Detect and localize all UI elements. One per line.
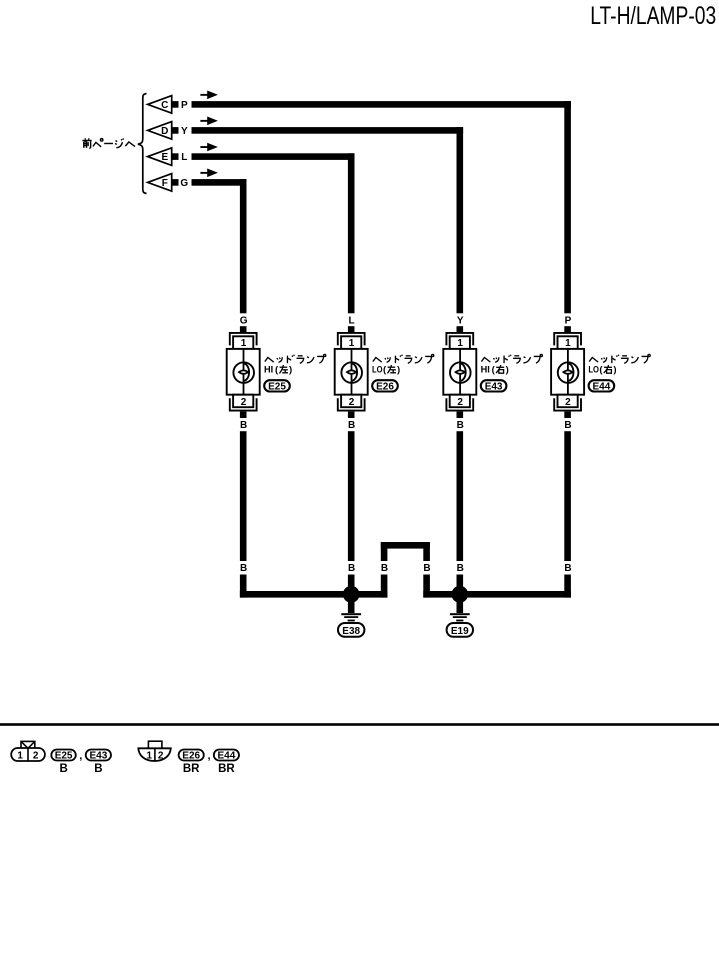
legend oval E44 [214, 750, 239, 762]
svg-text:B: B [457, 420, 464, 431]
bulb symbol in E43 [450, 362, 471, 383]
pin 2 of E43 [450, 395, 470, 408]
svg-text:B: B [564, 563, 571, 574]
svg-text:1: 1 [565, 338, 571, 349]
connector housing bottom of E25 [230, 398, 257, 410]
wire P horizontal run [192, 101, 571, 108]
svg-text:E44: E44 [593, 381, 611, 392]
wire stub from E44 pin 2 [564, 412, 571, 418]
svg-text:): ) [289, 365, 292, 376]
wire color label B above ground bus (col E43) [457, 563, 464, 574]
wire color label B on bridge left [381, 563, 388, 574]
headlamp body E26 [335, 349, 368, 395]
ground id oval E38 [338, 623, 364, 637]
pin 2 of E26 [341, 395, 361, 408]
svg-text:2: 2 [565, 397, 571, 408]
legend wire color BR for E44 [218, 763, 235, 775]
pin 2 of E44 [558, 395, 578, 408]
svg-text:E26: E26 [182, 751, 200, 762]
label ヘッドランプ LO(右) for E44 [588, 354, 650, 375]
legend oval E25 [51, 750, 76, 762]
connector triangle C (from previous page) [148, 96, 172, 114]
wire stub from E26 pin 2 [348, 412, 355, 418]
svg-text:1: 1 [457, 338, 463, 349]
connector housing top of E25 [230, 333, 257, 346]
wire B from E25 down [240, 431, 247, 561]
bulb symbol in E26 [341, 362, 362, 383]
svg-text:B: B [348, 563, 355, 574]
wire B from E26 down [348, 431, 355, 561]
svg-text:1: 1 [349, 338, 355, 349]
wire P vertical drop [564, 101, 571, 313]
connector housing bottom of E26 [338, 398, 365, 410]
wire B vertical to bus (col E25) [240, 575, 247, 598]
bridge left vertical lower [381, 575, 388, 598]
wire B from E43 down [457, 431, 464, 561]
ground symbol E38 [341, 600, 361, 621]
wire color label B below E43 [457, 420, 464, 431]
wire label P at E44 pin 1 [565, 316, 572, 327]
label ヘッドランプ HI(左) for E25 [264, 354, 326, 375]
connector triangle F (from previous page) [148, 174, 172, 192]
connector id oval E43 [481, 380, 507, 392]
legend connector face (male, E25/E43) [11, 741, 45, 761]
wire label L at E26 pin 1 [349, 316, 355, 327]
ground bus right segment [423, 591, 571, 598]
title text LT-H/LAMP-03 [590, 2, 716, 30]
pin 2 of E25 [233, 395, 253, 408]
separator rule [0, 723, 719, 726]
arrow on wire L [200, 143, 218, 152]
wire stub at D [172, 127, 179, 134]
legend oval E26 [179, 750, 204, 762]
svg-text:,: , [207, 750, 210, 762]
svg-text:B: B [240, 420, 247, 431]
pin 1 of E26 [341, 336, 361, 349]
legend comma 2 [207, 750, 210, 762]
svg-text:E44: E44 [218, 751, 236, 762]
svg-text:2: 2 [349, 397, 355, 408]
wire B vertical to bus (col E44) [564, 575, 571, 598]
connector housing top of E43 [446, 333, 473, 346]
svg-text:HI: HI [264, 365, 273, 376]
svg-text:P: P [181, 100, 188, 111]
connector id oval E44 [589, 380, 615, 392]
wire label G at E25 pin 1 [240, 316, 248, 327]
legend wire color B for E25 [59, 763, 67, 775]
svg-text:D: D [161, 126, 168, 137]
svg-text:E38: E38 [342, 626, 360, 637]
ground id oval E19 [447, 623, 473, 637]
label 前ページへ (to previous page) [82, 138, 135, 148]
pin 1 of E43 [450, 336, 470, 349]
headlamp body E25 [227, 349, 260, 395]
wire color label B above ground bus (col E26) [348, 563, 355, 574]
wire stub into E25 pin 1 [240, 326, 247, 333]
wire stub from E43 pin 2 [457, 412, 464, 418]
svg-text:B: B [381, 563, 388, 574]
wire G vertical drop [240, 179, 247, 313]
svg-text:C: C [161, 100, 168, 111]
connector id oval E25 [264, 380, 290, 392]
svg-text:P: P [565, 316, 572, 327]
bridge jog top [381, 542, 430, 549]
svg-text:LO: LO [588, 365, 599, 376]
svg-text:B: B [348, 420, 355, 431]
svg-text:L: L [349, 316, 355, 327]
wire G horizontal run [192, 179, 247, 186]
bulb symbol in E44 [558, 362, 579, 383]
wire B vertical to bus (col E43) [457, 575, 464, 598]
arrow on wire P [200, 91, 218, 100]
connector triangle D (from previous page) [148, 122, 172, 140]
connector housing top of E44 [554, 333, 581, 346]
svg-text:Y: Y [457, 316, 464, 327]
legend wire color B for E43 [94, 763, 102, 775]
connector housing bottom of E43 [446, 398, 473, 410]
svg-text:E25: E25 [55, 751, 73, 762]
wire Y vertical drop [457, 127, 464, 313]
svg-text:2: 2 [457, 397, 463, 408]
svg-text:): ) [613, 365, 616, 376]
wire color label B below E25 [240, 420, 247, 431]
wire stub into E44 pin 1 [564, 326, 571, 333]
legend connector face (female, E26/E44) [138, 741, 171, 761]
svg-text:F: F [162, 178, 168, 189]
wire stub into E43 pin 1 [457, 326, 464, 333]
wire color label B above ground bus (col E44) [564, 563, 571, 574]
svg-text:B: B [457, 563, 464, 574]
svg-text:B: B [240, 563, 247, 574]
connector id oval E26 [372, 380, 398, 392]
ground symbol E19 [450, 600, 470, 621]
wire L vertical drop [348, 153, 355, 313]
wire Y horizontal run [192, 127, 464, 134]
svg-text:1: 1 [17, 750, 23, 761]
svg-text:L: L [181, 152, 187, 163]
svg-text:B: B [94, 763, 102, 775]
svg-text:LO: LO [372, 365, 383, 376]
pin 1 of E44 [558, 336, 578, 349]
svg-text:,: , [79, 750, 82, 762]
wire stub at E [172, 153, 179, 160]
svg-text:E19: E19 [451, 626, 469, 637]
wire color label G [180, 178, 188, 189]
wire B from E44 down [564, 431, 571, 561]
svg-text:HI: HI [481, 365, 490, 376]
connector housing bottom of E44 [554, 398, 581, 410]
arrow on wire G [200, 169, 218, 178]
svg-text:E43: E43 [90, 751, 108, 762]
wire B vertical to bus (col E26) [348, 575, 355, 598]
connector triangle E (from previous page) [148, 148, 172, 166]
bulb symbol in E25 [233, 362, 254, 383]
label ヘッドランプ LO(左) for E26 [372, 354, 434, 375]
svg-text:BR: BR [183, 763, 200, 775]
svg-text:B: B [564, 420, 571, 431]
wire color label B below E26 [348, 420, 355, 431]
headlamp body E43 [443, 349, 476, 395]
legend wire color BR for E26 [183, 763, 200, 775]
svg-text:2: 2 [241, 397, 247, 408]
svg-text:): ) [506, 365, 509, 376]
wire color label Y [181, 126, 188, 137]
svg-text:E: E [161, 152, 168, 163]
svg-text:2: 2 [33, 750, 39, 761]
svg-text:LT-H/LAMP-03: LT-H/LAMP-03 [590, 2, 716, 30]
svg-text:Y: Y [181, 126, 188, 137]
svg-text:): ) [397, 365, 400, 376]
svg-text:BR: BR [218, 763, 235, 775]
wire color label L [181, 152, 187, 163]
pin 1 of E25 [233, 336, 253, 349]
wire color label B below E44 [564, 420, 571, 431]
brace grouping connectors C-F [138, 94, 147, 194]
label ヘッドランプ HI(右) for E43 [481, 354, 543, 375]
ground bus left segment [240, 591, 388, 598]
legend comma 1 [79, 750, 82, 762]
wire stub at F [172, 179, 179, 186]
bridge left vertical upper [381, 542, 388, 561]
wire color label B above ground bus (col E25) [240, 563, 247, 574]
wire stub at C [172, 101, 179, 108]
wire color label P [181, 100, 188, 111]
wire L horizontal run [192, 153, 355, 160]
bridge right vertical upper [423, 542, 430, 561]
svg-text:1: 1 [241, 338, 247, 349]
arrow on wire Y [200, 117, 218, 126]
wire color label B on bridge right [423, 563, 430, 574]
wire label Y at E43 pin 1 [457, 316, 464, 327]
svg-text:2: 2 [158, 750, 164, 761]
wire stub into E26 pin 1 [348, 326, 355, 333]
svg-text:E26: E26 [376, 381, 394, 392]
svg-text:B: B [59, 763, 67, 775]
connector housing top of E26 [338, 333, 365, 346]
svg-text:G: G [180, 178, 188, 189]
junction node at E19 [451, 586, 468, 603]
junction node at E38 [343, 586, 360, 603]
headlamp body E44 [551, 349, 584, 395]
bridge right vertical lower [423, 575, 430, 598]
legend oval E43 [86, 750, 111, 762]
svg-text:E43: E43 [485, 381, 503, 392]
svg-text:G: G [240, 316, 248, 327]
svg-text:E25: E25 [268, 381, 286, 392]
svg-text:1: 1 [147, 750, 153, 761]
svg-text:B: B [423, 563, 430, 574]
wire stub from E25 pin 2 [240, 412, 247, 418]
